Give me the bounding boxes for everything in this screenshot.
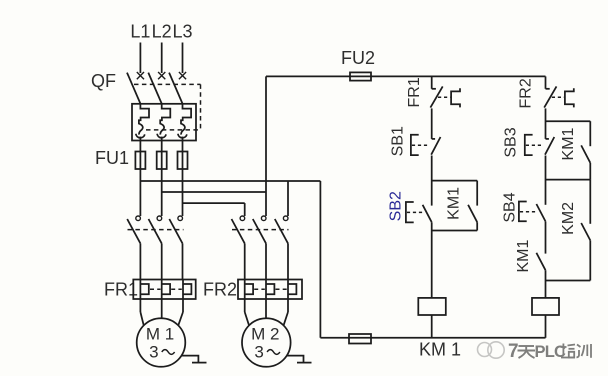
svg-text:L1: L1 [130, 22, 150, 42]
svg-text:7: 7 [508, 341, 519, 362]
svg-text:L3: L3 [172, 22, 192, 42]
svg-text:SB3: SB3 [503, 127, 520, 157]
svg-text:FR1: FR1 [406, 77, 423, 107]
svg-text:3: 3 [149, 343, 158, 362]
svg-text:FU2: FU2 [341, 48, 375, 68]
svg-text:KM 1: KM 1 [419, 340, 461, 360]
svg-text:FU1: FU1 [95, 148, 129, 168]
svg-text:KM1: KM1 [446, 187, 463, 220]
svg-text:QF: QF [91, 71, 116, 91]
svg-text:L2: L2 [152, 22, 172, 42]
svg-text:KM1: KM1 [560, 127, 577, 160]
svg-text:SB2: SB2 [388, 191, 405, 221]
svg-text:M 1: M 1 [146, 325, 174, 344]
svg-text:FR2: FR2 [518, 78, 535, 108]
svg-text:KM1: KM1 [515, 240, 532, 273]
svg-text:3: 3 [254, 343, 263, 362]
svg-text:M 2: M 2 [251, 325, 279, 344]
svg-text:KM2: KM2 [560, 202, 577, 235]
svg-text:SB1: SB1 [390, 126, 407, 156]
svg-text:SB4: SB4 [502, 192, 519, 222]
svg-text:FR2: FR2 [203, 280, 237, 300]
